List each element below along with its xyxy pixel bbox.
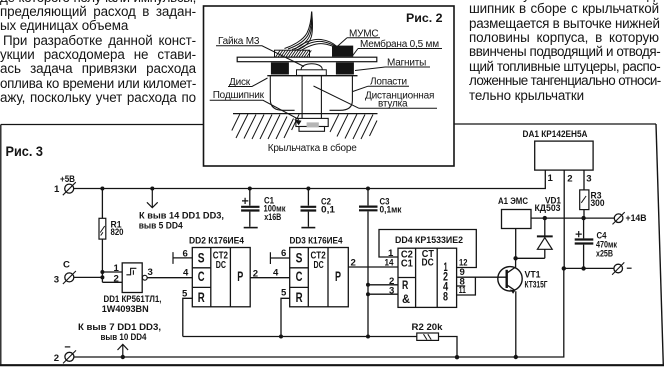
- DD4 R pins 2,3 stubs: [368, 285, 398, 294]
- svg-text:3: 3: [389, 285, 394, 296]
- svg-text:+14В: +14В: [626, 213, 647, 224]
- svg-text:4: 4: [183, 267, 189, 278]
- svg-text:6: 6: [281, 248, 286, 259]
- svg-text:выв 5 DD4: выв 5 DD4: [139, 220, 184, 231]
- svg-text:+5В: +5В: [60, 174, 75, 185]
- svg-text:P: P: [237, 268, 243, 284]
- DD4 pin8 stub: [457, 285, 466, 287]
- nut M3: [297, 64, 327, 76]
- magnet block on membrane (right, solid): [332, 46, 353, 57]
- svg-text:DD2 К176ИЕ4: DD2 К176ИЕ4: [189, 236, 245, 247]
- svg-text:R: R: [198, 289, 205, 305]
- svg-text:S: S: [296, 250, 303, 266]
- bearing: [296, 114, 328, 132]
- label: Дистанционная втулка: [314, 86, 438, 110]
- transistor VT1 KT315G: [498, 267, 522, 291]
- A1 bottom leg: [515, 229, 517, 259]
- svg-text:2: 2: [114, 274, 119, 285]
- DD4 pin11 stub: [457, 277, 476, 295]
- svg-text:C1: C1: [401, 258, 413, 269]
- svg-text:Крыльчатка в сборе: Крыльчатка в сборе: [268, 142, 358, 154]
- resistor R3: [580, 190, 589, 210]
- left magnet: [271, 62, 289, 74]
- svg-text:Рис. 2: Рис. 2: [406, 11, 443, 25]
- hatching: [232, 114, 377, 139]
- svg-text:3: 3: [54, 275, 59, 286]
- capacitor C3: [367, 189, 369, 337]
- capacitor C2: [307, 189, 309, 227]
- label: Лопасти: [353, 77, 409, 92]
- label: Мембрана 0,5 мм: [352, 38, 442, 57]
- svg-text:x25В: x25В: [596, 249, 613, 260]
- svg-text:DC: DC: [422, 257, 435, 268]
- gate DD1 KR561TL1: [122, 263, 142, 293]
- label: Диск: [228, 77, 268, 88]
- DD2 S stub: [173, 252, 192, 264]
- svg-text:5: 5: [182, 289, 188, 300]
- svg-text:DD3 К176ИЕ4: DD3 К176ИЕ4: [290, 236, 344, 247]
- bushing shaft: [302, 76, 321, 113]
- DD4 feedback pin12 to pin1: [379, 230, 476, 268]
- svg-text:820: 820: [111, 227, 124, 238]
- wire DD3.P to DD4 pin14: [348, 266, 398, 268]
- svg-text:2: 2: [567, 174, 572, 185]
- svg-text:DC: DC: [314, 260, 325, 271]
- +5V rail wire: [74, 170, 545, 188]
- terminal 3 input C: [65, 273, 74, 282]
- capacitor C1: [249, 189, 251, 227]
- terminal +14V: [614, 214, 623, 223]
- svg-text:DD4 КР1533ИЕ2: DD4 КР1533ИЕ2: [395, 235, 463, 246]
- MUMS hatched block: [275, 50, 312, 57]
- frame of fig.3: [1, 124, 656, 365]
- counter DD2 K176IE4: [192, 248, 250, 307]
- svg-text:КД503: КД503: [535, 203, 561, 214]
- bottom common rail: [74, 268, 564, 357]
- svg-text:DC: DC: [216, 260, 227, 271]
- svg-text:C: C: [198, 268, 205, 284]
- capacitor C4: [583, 218, 585, 268]
- svg-text:3: 3: [586, 174, 591, 185]
- impeller cup walls: [270, 76, 352, 113]
- svg-text:14: 14: [385, 257, 395, 268]
- svg-text:P: P: [335, 268, 341, 284]
- svg-text:S: S: [198, 250, 205, 266]
- arrow to pin14 DD1,DD3 pin5 DD4: [147, 189, 158, 208]
- svg-text:2: 2: [54, 353, 59, 364]
- svg-text:0,1мк: 0,1мк: [380, 205, 402, 216]
- arrow to pin7 DD1,DD3 pin10 DD4: [118, 344, 129, 357]
- svg-text:1: 1: [54, 184, 60, 195]
- svg-text:4: 4: [273, 267, 279, 278]
- svg-text:&: &: [402, 292, 410, 306]
- mid reset rail: [183, 337, 457, 358]
- svg-text:300: 300: [591, 198, 605, 209]
- svg-text:Рис. 3: Рис. 3: [6, 144, 44, 159]
- label: МУМС: [338, 28, 381, 46]
- DA1 pin2 wire to common: [563, 170, 565, 268]
- svg-text:6: 6: [183, 249, 188, 260]
- svg-text:3: 3: [148, 267, 153, 278]
- +14V rail: [531, 217, 614, 219]
- svg-text:x16В: x16В: [264, 212, 281, 223]
- schematic text labels: [54, 129, 647, 364]
- membrane plate: [237, 57, 377, 62]
- terminal 2: [65, 352, 74, 361]
- right magnet: [336, 62, 354, 74]
- right text column: [469, 0, 659, 2]
- DD3 R stub down: [281, 298, 290, 336]
- svg-text:0,1: 0,1: [321, 204, 336, 215]
- sensor wires flame bundle: [285, 12, 312, 49]
- ground hatch top line: [233, 113, 378, 115]
- gate DD1 input wires: [102, 272, 122, 282]
- svg-text:R: R: [402, 278, 408, 292]
- wire DD2.P to DD3.C: [250, 277, 290, 279]
- svg-text:1: 1: [548, 173, 554, 184]
- relay counter A1 EMS box: [502, 210, 532, 229]
- DA1 pin3 wire: [583, 170, 585, 190]
- terminal minus: [614, 264, 623, 273]
- svg-text:КТ315Г: КТ315Г: [525, 280, 548, 291]
- svg-text:DA1 КР142ЕН5А: DA1 КР142ЕН5А: [523, 129, 588, 140]
- counter DD4 KR1533IE2: [398, 248, 457, 307]
- svg-text:2: 2: [253, 269, 258, 280]
- minus rail: [564, 267, 614, 269]
- svg-text:11: 11: [459, 285, 466, 296]
- counter DD3 K176IE4: [290, 248, 349, 307]
- resistor R2: [417, 333, 439, 340]
- frame of fig.2 box: [204, 6, 455, 166]
- svg-text:Подшипник: Подшипник: [213, 90, 265, 101]
- svg-text:5: 5: [281, 287, 287, 298]
- label: Подшипник: [210, 90, 302, 125]
- svg-text:1W4093BN: 1W4093BN: [102, 304, 149, 315]
- voltage regulator DA1 KR142EN5A: [535, 141, 593, 170]
- DD3 S stub: [270, 252, 289, 264]
- svg-text:2: 2: [351, 258, 356, 269]
- resistor R1: [101, 189, 103, 273]
- svg-text:R2 20k: R2 20k: [412, 322, 444, 333]
- svg-text:R: R: [296, 289, 303, 305]
- svg-text:1: 1: [114, 263, 120, 274]
- disk line: [267, 75, 357, 77]
- terminal 1: [65, 184, 74, 193]
- label: Магниты: [355, 58, 430, 71]
- svg-text:C: C: [296, 268, 303, 284]
- DD2 R stub down: [183, 298, 193, 336]
- DD4 pin9 to VT1 base: [457, 276, 506, 278]
- diode VD1 KD503: [516, 218, 545, 258]
- svg-text:А1 ЭМС: А1 ЭМС: [498, 196, 528, 207]
- svg-text:выв 10 DD4: выв 10 DD4: [101, 332, 148, 343]
- svg-text:С: С: [63, 260, 70, 271]
- sensor wires right loop: [295, 39, 337, 49]
- label: Гайка М3: [216, 36, 304, 67]
- svg-text:8: 8: [443, 289, 448, 303]
- left text column: [0, 0, 196, 5]
